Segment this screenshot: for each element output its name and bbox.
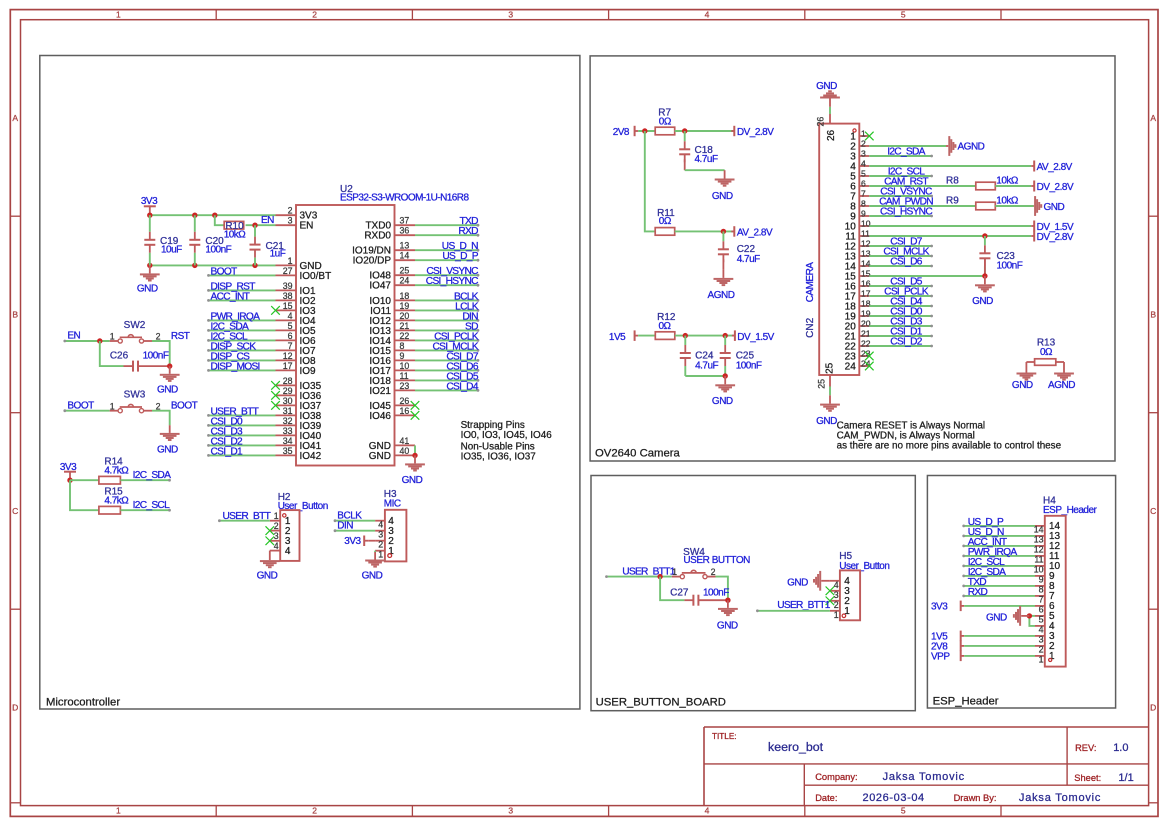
svg-text:MIC: MIC	[384, 499, 401, 510]
svg-text:1.0: 1.0	[1113, 742, 1128, 754]
svg-text:6: 6	[288, 331, 293, 341]
svg-text:CSI_D6: CSI_D6	[890, 257, 923, 268]
svg-text:SW3: SW3	[124, 389, 146, 400]
svg-text:GND: GND	[787, 577, 808, 588]
svg-text:Jaksa Tomovic: Jaksa Tomovic	[1019, 792, 1101, 804]
svg-text:2: 2	[834, 600, 839, 610]
svg-text:GND: GND	[1044, 202, 1065, 213]
svg-text:USER_BTT1: USER_BTT1	[777, 600, 831, 611]
svg-text:BOOT: BOOT	[171, 401, 198, 412]
svg-text:8: 8	[861, 198, 866, 208]
svg-text:6: 6	[861, 178, 866, 188]
svg-text:1: 1	[116, 806, 121, 816]
svg-text:2026-03-04: 2026-03-04	[863, 792, 925, 804]
svg-text:10kΩ: 10kΩ	[996, 176, 1019, 187]
svg-text:4.7uF: 4.7uF	[695, 360, 718, 371]
svg-text:4.7kΩ: 4.7kΩ	[104, 496, 129, 507]
svg-text:13: 13	[400, 241, 410, 251]
svg-text:GND: GND	[1012, 380, 1033, 391]
svg-text:GND: GND	[157, 444, 178, 455]
svg-text:DV_1.5V: DV_1.5V	[737, 332, 774, 343]
svg-text:13: 13	[1049, 531, 1061, 542]
svg-text:4: 4	[861, 158, 866, 168]
svg-text:26: 26	[400, 396, 410, 406]
svg-text:9: 9	[1049, 571, 1055, 582]
svg-text:5: 5	[901, 10, 906, 20]
svg-text:2: 2	[312, 10, 317, 20]
svg-text:AV_2.8V: AV_2.8V	[737, 227, 773, 238]
svg-text:A: A	[12, 113, 18, 123]
svg-text:16: 16	[400, 406, 410, 416]
svg-text:D: D	[12, 702, 18, 712]
svg-text:25: 25	[824, 362, 835, 374]
svg-text:28: 28	[283, 376, 293, 386]
svg-text:34: 34	[283, 436, 293, 446]
svg-text:EN: EN	[261, 215, 274, 226]
svg-text:12: 12	[1034, 544, 1044, 554]
svg-text:2: 2	[274, 521, 279, 531]
svg-text:1: 1	[834, 610, 839, 620]
svg-text:BOOT: BOOT	[211, 266, 238, 277]
svg-text:IO0, IO3, IO45, IO46: IO0, IO3, IO45, IO46	[461, 430, 553, 441]
svg-text:EN: EN	[300, 221, 314, 232]
svg-text:36: 36	[400, 226, 410, 236]
svg-text:Drawn By:: Drawn By:	[954, 793, 997, 803]
svg-text:100nF: 100nF	[736, 360, 762, 371]
svg-text:A: A	[1150, 113, 1156, 123]
svg-text:10: 10	[1034, 564, 1044, 574]
svg-text:35: 35	[283, 446, 293, 456]
svg-text:10: 10	[400, 361, 410, 371]
svg-text:4: 4	[705, 806, 710, 816]
svg-text:1: 1	[378, 550, 383, 560]
svg-text:IO46: IO46	[369, 411, 391, 422]
svg-text:41: 41	[400, 436, 410, 446]
svg-text:2: 2	[1039, 644, 1044, 654]
svg-text:I2C_SCL: I2C_SCL	[133, 500, 170, 511]
svg-text:4.7kΩ: 4.7kΩ	[104, 465, 129, 476]
svg-text:GND: GND	[717, 621, 738, 632]
svg-text:7: 7	[1039, 594, 1044, 604]
svg-text:RXD: RXD	[458, 226, 478, 237]
svg-text:1V5: 1V5	[609, 332, 626, 343]
svg-text:IO20/DP: IO20/DP	[353, 256, 392, 267]
svg-text:GND: GND	[712, 191, 733, 202]
svg-text:CAM_PWDN: CAM_PWDN	[879, 197, 933, 208]
svg-text:26: 26	[826, 129, 837, 141]
svg-text:17: 17	[283, 361, 293, 371]
svg-text:CSI_HSYNC: CSI_HSYNC	[880, 207, 932, 218]
svg-text:1: 1	[110, 332, 115, 342]
svg-text:1: 1	[116, 10, 121, 20]
svg-text:GND: GND	[972, 296, 993, 307]
svg-text:100nF: 100nF	[143, 351, 169, 362]
svg-text:3V3: 3V3	[344, 536, 361, 547]
svg-text:GND: GND	[362, 571, 383, 582]
svg-text:4: 4	[1049, 621, 1055, 632]
svg-text:Sheet:: Sheet:	[1074, 773, 1101, 783]
svg-text:as there are no more pins avai: as there are no more pins available to c…	[837, 441, 1062, 452]
svg-text:3V3: 3V3	[931, 601, 948, 612]
svg-text:4: 4	[288, 311, 293, 321]
svg-text:B: B	[12, 309, 18, 319]
svg-text:1: 1	[861, 128, 866, 138]
svg-text:39: 39	[283, 281, 293, 291]
svg-text:CSI_HSYNC: CSI_HSYNC	[426, 276, 478, 287]
svg-text:C: C	[1150, 506, 1156, 516]
svg-text:BOOT: BOOT	[67, 400, 94, 411]
svg-text:9: 9	[861, 208, 866, 218]
svg-text:GND: GND	[157, 385, 178, 396]
svg-text:5: 5	[1049, 611, 1055, 622]
svg-text:2: 2	[378, 540, 383, 550]
svg-text:3: 3	[1039, 634, 1044, 644]
svg-text:CN2: CN2	[805, 317, 816, 337]
svg-text:SW2: SW2	[124, 320, 146, 331]
svg-text:8: 8	[400, 341, 405, 351]
svg-text:4: 4	[378, 520, 383, 530]
svg-text:0Ω: 0Ω	[1040, 347, 1053, 358]
svg-text:4: 4	[274, 541, 279, 551]
svg-text:D: D	[1150, 702, 1156, 712]
svg-text:CAMERA: CAMERA	[805, 262, 816, 303]
svg-text:4: 4	[834, 580, 839, 590]
svg-text:2: 2	[711, 567, 716, 577]
svg-text:US_D_P: US_D_P	[442, 251, 478, 262]
svg-text:31: 31	[283, 406, 293, 416]
svg-text:IO35, IO36, IO37: IO35, IO36, IO37	[461, 451, 536, 462]
svg-text:3: 3	[1049, 631, 1055, 642]
svg-text:OV2640 Camera: OV2640 Camera	[595, 447, 680, 459]
svg-text:REV:: REV:	[1075, 743, 1096, 753]
svg-text:7: 7	[1049, 591, 1055, 602]
svg-text:37: 37	[400, 216, 410, 226]
svg-text:GND: GND	[369, 451, 391, 462]
svg-text:2: 2	[288, 206, 293, 216]
svg-text:10kΩ: 10kΩ	[224, 230, 247, 241]
svg-text:2: 2	[1049, 641, 1055, 652]
svg-text:IO47: IO47	[369, 281, 391, 292]
svg-text:40: 40	[400, 446, 410, 456]
svg-text:4: 4	[285, 546, 291, 557]
svg-text:keero_bot: keero_bot	[768, 740, 824, 754]
svg-text:9: 9	[400, 351, 405, 361]
svg-text:AV_2.8V: AV_2.8V	[1037, 162, 1073, 173]
svg-text:CSI_D1: CSI_D1	[211, 446, 244, 457]
svg-text:5: 5	[1039, 614, 1044, 624]
svg-text:9: 9	[1039, 574, 1044, 584]
svg-text:6: 6	[1049, 601, 1055, 612]
svg-text:26: 26	[815, 117, 825, 127]
svg-text:RST: RST	[171, 331, 190, 342]
svg-text:I2C_SDA: I2C_SDA	[133, 470, 171, 481]
svg-text:1uF: 1uF	[270, 249, 286, 260]
svg-text:11: 11	[861, 228, 870, 238]
svg-text:Microcontroller: Microcontroller	[46, 696, 120, 708]
svg-text:1: 1	[1039, 654, 1044, 664]
svg-text:ACC_INT: ACC_INT	[211, 291, 250, 302]
svg-text:DV_2.8V: DV_2.8V	[1037, 182, 1074, 193]
svg-text:I2C_SDA: I2C_SDA	[887, 147, 925, 158]
svg-text:2: 2	[312, 806, 317, 816]
svg-text:100nF: 100nF	[205, 244, 231, 255]
svg-text:100nF: 100nF	[703, 587, 729, 598]
svg-text:24: 24	[400, 276, 410, 286]
svg-text:10kΩ: 10kΩ	[996, 196, 1019, 207]
svg-text:29: 29	[283, 386, 293, 396]
svg-text:1: 1	[274, 511, 279, 521]
svg-text:7: 7	[861, 188, 866, 198]
svg-text:ESP_Header: ESP_Header	[1043, 505, 1098, 516]
svg-text:GND: GND	[816, 81, 837, 92]
svg-text:TITLE:: TITLE:	[712, 732, 737, 741]
svg-text:1: 1	[288, 256, 293, 266]
svg-text:AGND: AGND	[1048, 380, 1075, 391]
svg-text:CAM_RST: CAM_RST	[884, 177, 928, 188]
svg-text:18: 18	[400, 291, 410, 301]
svg-text:19: 19	[400, 301, 410, 311]
svg-text:AGND: AGND	[708, 290, 735, 301]
svg-text:23: 23	[400, 381, 410, 391]
svg-text:6: 6	[1039, 604, 1044, 614]
svg-text:RXD: RXD	[968, 587, 988, 598]
svg-text:25: 25	[400, 266, 410, 276]
svg-text:8: 8	[1049, 581, 1055, 592]
svg-text:3: 3	[378, 530, 383, 540]
svg-text:3: 3	[508, 806, 513, 816]
svg-text:10: 10	[1049, 561, 1061, 572]
svg-text:GND: GND	[816, 416, 837, 427]
svg-text:GND: GND	[986, 613, 1007, 624]
svg-text:CSI_D4: CSI_D4	[446, 381, 479, 392]
svg-text:Company:: Company:	[815, 772, 857, 782]
svg-text:14: 14	[1034, 524, 1044, 534]
svg-text:EN: EN	[67, 331, 80, 342]
svg-text:CSI_D2: CSI_D2	[890, 337, 923, 348]
svg-text:0Ω: 0Ω	[659, 216, 672, 227]
svg-text:ESP32-S3-WROOM-1U-N16R8: ESP32-S3-WROOM-1U-N16R8	[340, 193, 469, 204]
svg-text:DISP_MOSI: DISP_MOSI	[211, 361, 260, 372]
svg-text:30: 30	[283, 396, 293, 406]
svg-text:GND: GND	[402, 475, 423, 486]
svg-text:27: 27	[283, 266, 293, 276]
svg-text:24: 24	[845, 361, 857, 372]
svg-text:GND: GND	[257, 570, 278, 581]
svg-text:VPP: VPP	[931, 651, 950, 662]
svg-text:4.7uF: 4.7uF	[695, 154, 718, 165]
svg-text:5: 5	[901, 806, 906, 816]
svg-text:3V3: 3V3	[141, 196, 158, 207]
svg-text:4: 4	[1039, 624, 1044, 634]
svg-text:4.7uF: 4.7uF	[737, 254, 760, 265]
svg-text:1/1: 1/1	[1118, 772, 1133, 784]
svg-text:38: 38	[283, 291, 293, 301]
svg-text:1: 1	[110, 401, 115, 411]
svg-text:AGND: AGND	[958, 142, 985, 153]
svg-text:Date:: Date:	[815, 793, 837, 803]
svg-text:4: 4	[705, 10, 710, 20]
svg-text:GND: GND	[137, 284, 158, 295]
svg-text:12: 12	[1049, 541, 1061, 552]
svg-text:C26: C26	[110, 351, 129, 362]
svg-text:32: 32	[283, 416, 293, 426]
svg-text:IO9: IO9	[300, 366, 317, 377]
svg-text:B: B	[1150, 309, 1156, 319]
svg-text:100nF: 100nF	[997, 261, 1023, 272]
svg-text:GND: GND	[712, 396, 733, 407]
svg-text:DV_2.8V: DV_2.8V	[737, 127, 774, 138]
svg-text:RXD0: RXD0	[364, 231, 391, 242]
svg-text:5: 5	[288, 321, 293, 331]
svg-text:C: C	[12, 506, 18, 516]
svg-text:Jaksa Tomovic: Jaksa Tomovic	[883, 771, 965, 783]
svg-text:IO21: IO21	[369, 386, 391, 397]
svg-text:IO0/BT: IO0/BT	[300, 271, 332, 282]
svg-text:2V8: 2V8	[613, 127, 630, 138]
svg-text:13: 13	[1034, 534, 1044, 544]
svg-text:7: 7	[288, 341, 293, 351]
svg-text:DV_2.8V: DV_2.8V	[1037, 232, 1074, 243]
svg-text:8: 8	[1039, 584, 1044, 594]
svg-text:14: 14	[1049, 521, 1061, 532]
svg-text:1: 1	[672, 567, 677, 577]
svg-text:11: 11	[1034, 554, 1043, 564]
svg-text:ESP_Header: ESP_Header	[933, 695, 999, 707]
svg-text:11: 11	[1049, 551, 1060, 562]
svg-text:IO42: IO42	[300, 451, 322, 462]
svg-text:0Ω: 0Ω	[659, 116, 672, 127]
svg-text:3: 3	[508, 10, 513, 20]
svg-text:3: 3	[834, 590, 839, 600]
svg-text:21: 21	[400, 321, 410, 331]
svg-text:33: 33	[283, 426, 293, 436]
svg-text:15: 15	[283, 301, 293, 311]
svg-text:USER BUTTON: USER BUTTON	[683, 555, 750, 566]
svg-text:14: 14	[400, 251, 410, 261]
svg-text:R9: R9	[946, 196, 959, 207]
svg-text:3: 3	[288, 216, 293, 226]
svg-text:C27: C27	[670, 587, 689, 598]
svg-text:USER_BUTTON_BOARD: USER_BUTTON_BOARD	[596, 697, 726, 709]
svg-text:10uF: 10uF	[161, 244, 182, 255]
svg-text:22: 22	[400, 331, 410, 341]
svg-text:12: 12	[283, 351, 293, 361]
svg-text:11: 11	[400, 371, 409, 381]
svg-text:20: 20	[400, 311, 410, 321]
svg-text:0Ω: 0Ω	[658, 321, 671, 332]
svg-text:3: 3	[274, 531, 279, 541]
svg-text:R8: R8	[946, 176, 959, 187]
svg-text:5: 5	[861, 168, 866, 178]
svg-text:3: 3	[861, 148, 866, 158]
svg-text:25: 25	[817, 379, 827, 389]
